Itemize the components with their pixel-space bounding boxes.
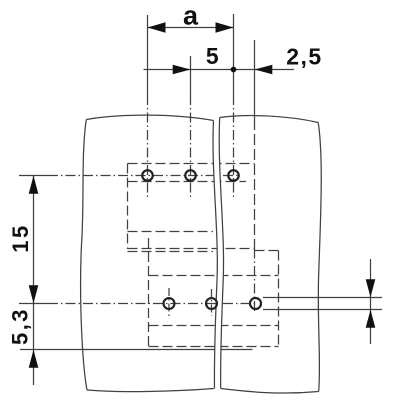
hole B2 <box>206 298 217 309</box>
arrowhead hole diameter top <box>366 279 376 297</box>
wire: extension line hole A3 <box>233 14 235 95</box>
break line: left <box>213 121 217 389</box>
wire: extension line hole A2 <box>190 56 192 95</box>
wire: extension line hole B3 / housing right edge row1 <box>254 40 256 119</box>
hole B3 <box>250 298 261 309</box>
PCB edge: left piece left side <box>81 120 87 391</box>
hole A3 <box>228 170 239 181</box>
hole B1 <box>164 298 175 309</box>
wire: housing step line upper <box>128 248 255 250</box>
arrowhead dimension 15 bottom <box>29 285 39 303</box>
wire: dimension line a <box>148 27 234 29</box>
arrowhead dimension 5,3 bottom <box>29 350 39 368</box>
PCB edge: left piece bottom <box>87 389 214 392</box>
wire: housing outline top row2 <box>149 275 279 277</box>
PCB edge: right piece right side <box>318 123 321 392</box>
wire: reference line 5,3 <box>20 349 253 351</box>
arrowhead dimension 15 top <box>29 176 39 194</box>
arrowhead dimension a left <box>148 22 166 32</box>
arrowhead dimension a right <box>216 22 234 32</box>
white gap of break line <box>213 118 224 389</box>
svg-text:5: 5 <box>206 43 219 69</box>
wire: housing outline right row2 <box>278 251 280 347</box>
arrowhead dimension 2,5 <box>255 65 273 75</box>
wire: centre line hole B1 <box>168 288 170 318</box>
wire: housing outline left row1 <box>127 164 129 250</box>
PCB edge: left piece top <box>86 115 213 120</box>
wire: dimension line left (15 / 5,3) <box>33 176 35 386</box>
wire: housing outline top row1 <box>128 163 255 165</box>
wire: housing outline bottom row1 <box>128 231 214 233</box>
arrowhead dimension 5 <box>173 65 191 75</box>
arrowhead hole diameter bottom <box>366 310 376 328</box>
wire: centre line hole B2 <box>211 289 213 316</box>
hole A2 <box>185 170 196 181</box>
wire: housing step line lower <box>128 251 214 253</box>
node: centre line row 2 <box>19 303 48 305</box>
node: centre line row 1 <box>19 175 48 177</box>
wire: housing inner line row2 <box>149 325 279 327</box>
PCB edge: right piece top <box>220 116 319 123</box>
svg-text:5,3: 5,3 <box>8 307 33 345</box>
wire: housing outline bottom row2 <box>149 346 279 348</box>
break line: right <box>219 118 223 389</box>
wire: tangent line bottom of hole B3 <box>263 309 382 311</box>
svg-text:2,5: 2,5 <box>286 44 322 70</box>
svg-text:15: 15 <box>8 223 33 252</box>
wire: dimension line 5 / 2,5 <box>144 69 295 71</box>
wire: housing outline left row2 <box>148 238 150 347</box>
wire: tangent line top of hole B3 <box>263 297 382 299</box>
svg-text:a: a <box>183 1 199 31</box>
wire: housing line under row1 holes <box>128 181 247 183</box>
hole A1 <box>142 170 153 181</box>
wire: extension line hole A1 <box>147 15 149 95</box>
wire: dimension line right (hole dia) <box>370 259 372 344</box>
PCB edge: right piece bottom <box>221 389 319 394</box>
node: dimension point at hole A3 <box>231 67 237 73</box>
